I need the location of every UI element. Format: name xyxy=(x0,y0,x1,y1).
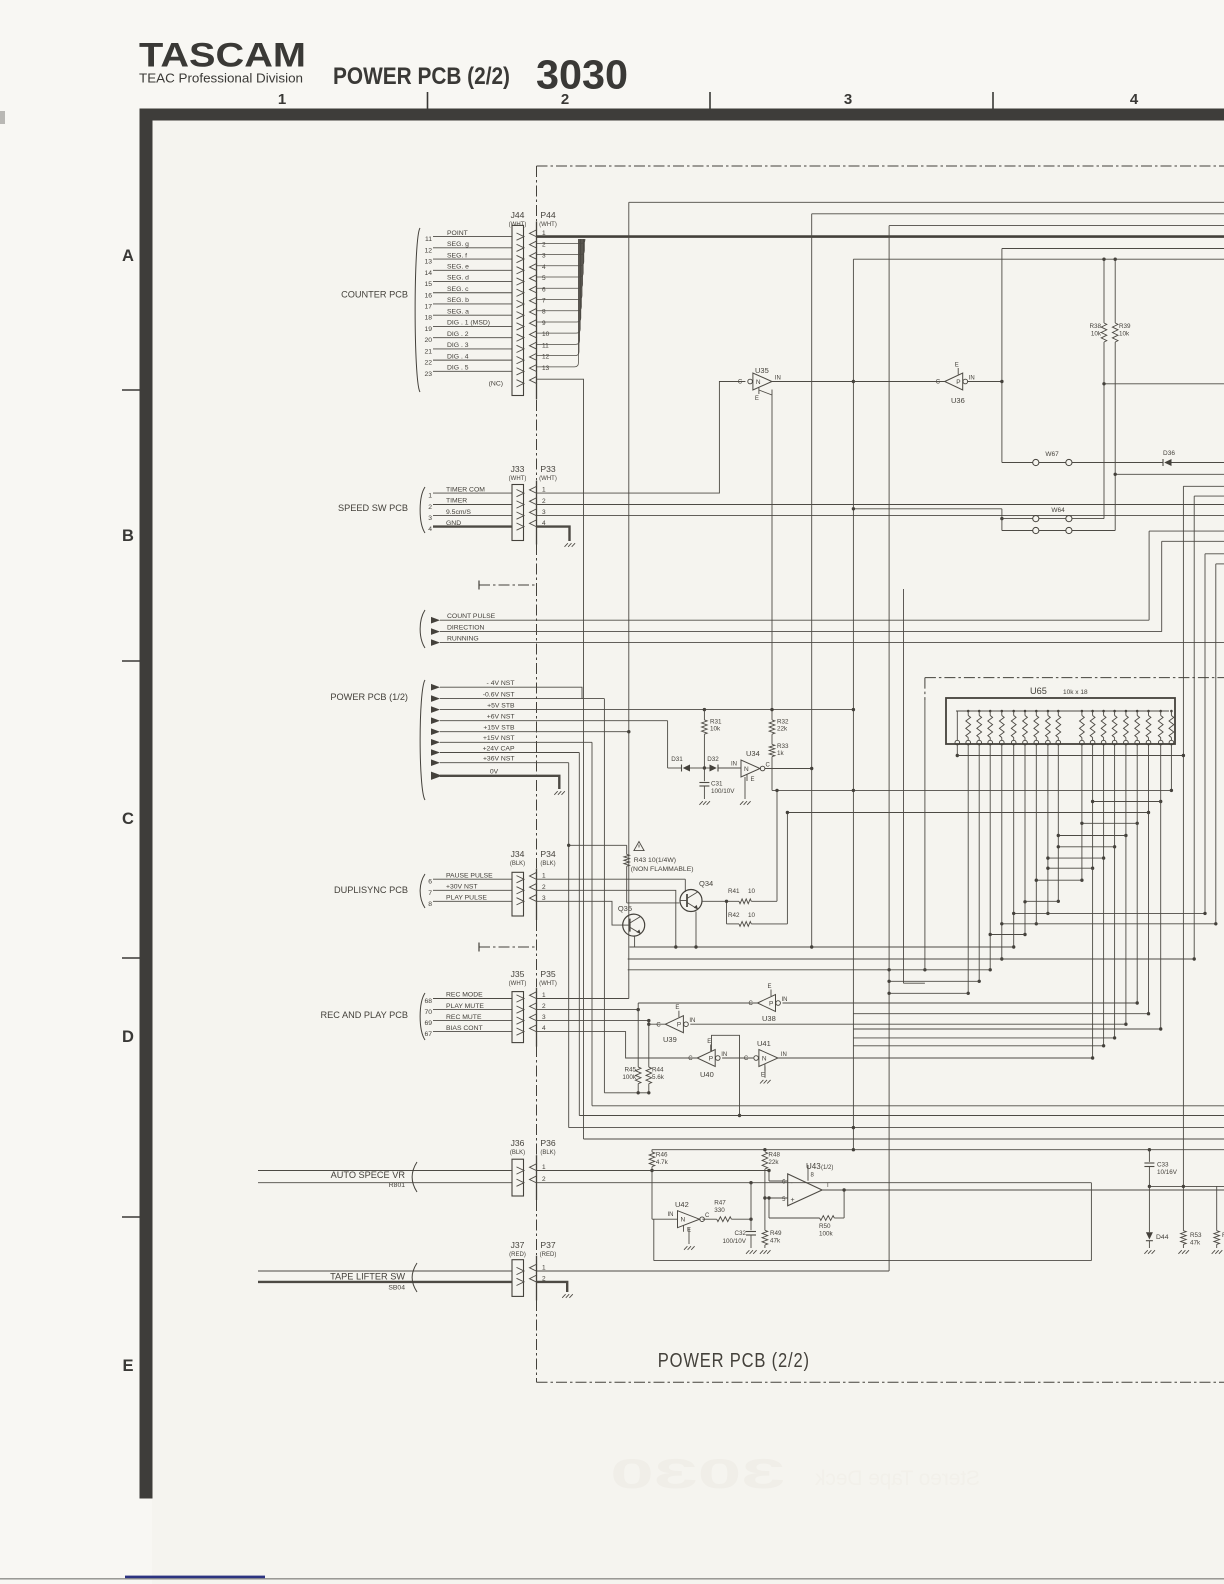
svg-text:+15V NST: +15V NST xyxy=(483,735,515,742)
svg-text:1: 1 xyxy=(542,1265,546,1272)
svg-text:IN: IN xyxy=(721,1052,727,1058)
svg-text:4: 4 xyxy=(428,526,432,533)
svg-text:R44: R44 xyxy=(652,1067,664,1074)
svg-text:P: P xyxy=(769,1000,773,1007)
svg-text:U42: U42 xyxy=(675,1200,689,1209)
svg-text:3030: 3030 xyxy=(536,52,628,98)
svg-text:DIG . 2: DIG . 2 xyxy=(447,331,469,338)
svg-text:2: 2 xyxy=(542,1176,546,1183)
svg-text:3: 3 xyxy=(542,895,546,902)
svg-text:W67: W67 xyxy=(1045,451,1059,458)
svg-text:1: 1 xyxy=(428,493,432,500)
svg-text:U34: U34 xyxy=(746,749,760,758)
svg-text:PLAY MUTE: PLAY MUTE xyxy=(446,1003,484,1010)
svg-text:R53: R53 xyxy=(1190,1232,1202,1239)
svg-text:TAPE LIFTER SW: TAPE LIFTER SW xyxy=(330,1272,405,1282)
svg-text:DUPLISYNC PCB: DUPLISYNC PCB xyxy=(334,885,408,895)
svg-text:SEG. a: SEG. a xyxy=(447,308,469,315)
svg-text:U39: U39 xyxy=(663,1035,677,1044)
svg-text:22k: 22k xyxy=(777,726,788,733)
svg-text:10k x 18: 10k x 18 xyxy=(1063,689,1088,696)
svg-text:P36: P36 xyxy=(540,1138,556,1148)
svg-text:E: E xyxy=(761,1073,765,1079)
svg-text:(WHT): (WHT) xyxy=(509,981,527,987)
svg-text:3: 3 xyxy=(542,253,546,260)
svg-text:20: 20 xyxy=(424,337,432,344)
svg-text:10: 10 xyxy=(542,331,550,338)
svg-text:3: 3 xyxy=(844,91,852,108)
svg-text:N: N xyxy=(681,1217,686,1224)
svg-text:E: E xyxy=(751,777,755,783)
svg-text:R47: R47 xyxy=(714,1200,726,1207)
svg-text:R45: R45 xyxy=(624,1067,636,1074)
svg-text:R43 10(1/4W): R43 10(1/4W) xyxy=(634,857,676,864)
svg-text:SEG. b: SEG. b xyxy=(447,297,469,304)
svg-text:TIMER COM: TIMER COM xyxy=(446,486,485,493)
svg-text:14: 14 xyxy=(424,270,432,277)
svg-text:C: C xyxy=(744,1056,749,1062)
svg-text:IN: IN xyxy=(731,761,737,767)
svg-text:13: 13 xyxy=(424,259,432,266)
svg-text:69: 69 xyxy=(424,1020,432,1027)
svg-text:10k: 10k xyxy=(1091,331,1102,338)
svg-text:70: 70 xyxy=(424,1009,432,1016)
svg-text:(WHT): (WHT) xyxy=(539,222,557,228)
svg-text:2: 2 xyxy=(561,91,569,108)
svg-text:D31: D31 xyxy=(671,756,683,763)
svg-text:+6V NST: +6V NST xyxy=(487,714,515,721)
svg-text:11: 11 xyxy=(542,342,549,349)
svg-text:D36: D36 xyxy=(1163,450,1175,457)
svg-text:BIAS CONT: BIAS CONT xyxy=(446,1025,483,1032)
svg-text:PLAY PULSE: PLAY PULSE xyxy=(446,895,487,902)
svg-text:N: N xyxy=(744,766,749,773)
svg-text:REC AND PLAY PCB: REC AND PLAY PCB xyxy=(321,1010,408,1020)
svg-text:1: 1 xyxy=(542,1164,546,1171)
svg-text:3030: 3030 xyxy=(610,1450,785,1497)
svg-text:Stereo Tape Deck: Stereo Tape Deck xyxy=(815,1467,981,1490)
svg-text:U65: U65 xyxy=(1030,686,1047,696)
svg-text:REC MUTE: REC MUTE xyxy=(446,1014,482,1021)
svg-text:100k: 100k xyxy=(622,1074,637,1081)
svg-text:1: 1 xyxy=(278,91,286,108)
svg-text:P33: P33 xyxy=(540,464,556,474)
svg-text:TIMER: TIMER xyxy=(446,498,467,505)
svg-text:68: 68 xyxy=(424,998,432,1005)
svg-text:(WHT): (WHT) xyxy=(509,476,527,482)
svg-text:IN: IN xyxy=(775,375,781,381)
svg-text:-0.6V NST: -0.6V NST xyxy=(483,691,515,698)
svg-text:10/16V: 10/16V xyxy=(1157,1169,1178,1176)
svg-text:(RED): (RED) xyxy=(509,1252,526,1258)
svg-text:REC MODE: REC MODE xyxy=(446,992,483,999)
svg-text:(BLK): (BLK) xyxy=(510,1150,525,1156)
svg-text:SPEED SW PCB: SPEED SW PCB xyxy=(338,503,408,513)
svg-text:+24V CAP: +24V CAP xyxy=(483,745,515,752)
svg-text:E: E xyxy=(707,1039,711,1045)
svg-text:U40: U40 xyxy=(700,1070,714,1079)
svg-text:5.6k: 5.6k xyxy=(652,1074,665,1081)
svg-text:IN: IN xyxy=(668,1212,674,1218)
svg-text:U38: U38 xyxy=(762,1014,776,1023)
svg-text:C: C xyxy=(749,1001,754,1007)
svg-text:23: 23 xyxy=(424,371,432,378)
svg-text:3: 3 xyxy=(542,1014,546,1021)
svg-text:18: 18 xyxy=(424,315,432,322)
svg-text:R48: R48 xyxy=(768,1152,780,1159)
svg-text:11: 11 xyxy=(425,236,432,243)
svg-text:7: 7 xyxy=(542,297,546,304)
svg-text:16: 16 xyxy=(424,292,432,299)
svg-text:+5V STB: +5V STB xyxy=(487,702,515,709)
svg-text:J34: J34 xyxy=(511,849,525,859)
svg-text:4: 4 xyxy=(542,1025,546,1032)
svg-text:330: 330 xyxy=(714,1207,725,1214)
svg-text:E: E xyxy=(675,1005,679,1011)
svg-text:10: 10 xyxy=(748,912,756,919)
svg-text:RUNNING: RUNNING xyxy=(447,635,479,642)
svg-text:SEG. e: SEG. e xyxy=(447,263,469,270)
svg-text:47k: 47k xyxy=(770,1238,781,1245)
svg-text:(BLK): (BLK) xyxy=(510,861,525,867)
svg-text:67: 67 xyxy=(424,1031,432,1038)
svg-text:2: 2 xyxy=(542,498,546,505)
svg-text:12: 12 xyxy=(424,247,432,254)
svg-text:TEAC Professional Division: TEAC Professional Division xyxy=(139,71,303,86)
svg-text:W64: W64 xyxy=(1051,507,1065,514)
svg-text:POWER PCB (1/2): POWER PCB (1/2) xyxy=(330,692,408,702)
svg-text:A: A xyxy=(122,247,134,265)
svg-text:SEG. g: SEG. g xyxy=(447,241,469,248)
svg-text:19: 19 xyxy=(424,326,432,333)
svg-text:47k: 47k xyxy=(1190,1240,1201,1247)
svg-text:(NC): (NC) xyxy=(489,380,503,387)
svg-text:3: 3 xyxy=(428,515,432,522)
svg-text:R33: R33 xyxy=(777,743,789,750)
svg-text:R50: R50 xyxy=(819,1223,831,1230)
svg-text:DIG . 4: DIG . 4 xyxy=(447,353,469,360)
svg-text:J36: J36 xyxy=(511,1138,525,1148)
svg-text:IN: IN xyxy=(781,1052,787,1058)
svg-text:(BLK): (BLK) xyxy=(540,1150,555,1156)
svg-text:PAUSE PULSE: PAUSE PULSE xyxy=(446,872,493,879)
svg-text:100/10V: 100/10V xyxy=(723,1238,747,1245)
svg-text:12: 12 xyxy=(542,354,550,361)
svg-text:0V: 0V xyxy=(490,768,499,775)
svg-text:J35: J35 xyxy=(511,969,525,979)
svg-text:17: 17 xyxy=(424,303,432,310)
svg-text:+30V NST: +30V NST xyxy=(446,884,478,891)
svg-text:C33: C33 xyxy=(1157,1162,1169,1169)
svg-text:(WHT): (WHT) xyxy=(539,476,557,482)
svg-text:POWER PCB (2/2): POWER PCB (2/2) xyxy=(658,1350,810,1372)
svg-text:22k: 22k xyxy=(768,1159,779,1166)
svg-text:R801: R801 xyxy=(389,1182,405,1189)
svg-text:+: + xyxy=(791,1197,795,1204)
svg-text:P: P xyxy=(956,379,960,386)
svg-text:POINT: POINT xyxy=(447,230,468,237)
svg-text:4: 4 xyxy=(542,264,546,271)
svg-text:SEG. c: SEG. c xyxy=(447,286,469,293)
svg-text:SB04: SB04 xyxy=(388,1285,405,1292)
svg-text:4: 4 xyxy=(1130,91,1139,108)
svg-text:4.7k: 4.7k xyxy=(656,1159,669,1166)
svg-text:DIRECTION: DIRECTION xyxy=(447,624,484,631)
svg-text:C31: C31 xyxy=(711,781,723,788)
svg-text:IN: IN xyxy=(782,997,788,1003)
svg-text:- 4V NST: - 4V NST xyxy=(487,680,515,687)
svg-text:1: 1 xyxy=(542,992,546,999)
svg-text:C: C xyxy=(656,1022,661,1028)
svg-text:C: C xyxy=(738,380,743,386)
svg-text:+36V NST: +36V NST xyxy=(483,756,515,763)
svg-text:21: 21 xyxy=(424,348,432,355)
svg-text:U36: U36 xyxy=(951,396,965,405)
svg-text:2: 2 xyxy=(542,241,546,248)
svg-text:DIG . 1 (MSD): DIG . 1 (MSD) xyxy=(447,320,490,327)
svg-text:2: 2 xyxy=(542,1003,546,1010)
svg-text:D44: D44 xyxy=(1156,1234,1169,1241)
svg-text:J33: J33 xyxy=(511,464,525,474)
svg-text:R41: R41 xyxy=(728,888,740,895)
svg-text:2: 2 xyxy=(542,884,546,891)
svg-text:9.5cm/S: 9.5cm/S xyxy=(446,509,471,516)
svg-text:C: C xyxy=(705,1213,710,1219)
svg-text:IN: IN xyxy=(969,376,975,382)
svg-text:P: P xyxy=(677,1022,681,1029)
svg-text:10k: 10k xyxy=(710,726,721,733)
svg-text:(1/2): (1/2) xyxy=(821,1165,833,1171)
svg-text:DIG . 5: DIG . 5 xyxy=(447,365,469,372)
svg-text:D32: D32 xyxy=(707,756,719,763)
svg-text:1: 1 xyxy=(542,873,546,880)
svg-text:R32: R32 xyxy=(777,719,789,726)
svg-text:P37: P37 xyxy=(540,1240,556,1250)
svg-text:E: E xyxy=(768,984,772,990)
svg-text:15: 15 xyxy=(424,281,432,288)
svg-text:(NON FLAMMABLE): (NON FLAMMABLE) xyxy=(631,866,694,873)
svg-text:+15V STB: +15V STB xyxy=(483,725,515,732)
svg-text:R46: R46 xyxy=(656,1152,668,1159)
svg-text:7: 7 xyxy=(428,890,432,897)
svg-text:P: P xyxy=(709,1055,713,1062)
svg-text:8: 8 xyxy=(428,901,432,908)
svg-text:IN: IN xyxy=(689,1018,695,1024)
svg-text:100k: 100k xyxy=(819,1231,834,1238)
svg-text:E: E xyxy=(122,1357,133,1375)
svg-text:AUTO SPECE VR: AUTO SPECE VR xyxy=(331,1170,406,1180)
svg-text:(WHT): (WHT) xyxy=(509,222,527,228)
svg-text:(BLK): (BLK) xyxy=(540,861,555,867)
svg-text:U35: U35 xyxy=(755,366,769,375)
svg-text:13: 13 xyxy=(542,365,550,372)
svg-text:10k: 10k xyxy=(1119,331,1130,338)
svg-text:N: N xyxy=(756,379,761,386)
svg-text:1: 1 xyxy=(542,487,546,494)
svg-text:D: D xyxy=(122,1028,134,1046)
svg-text:8: 8 xyxy=(542,309,546,316)
svg-text:C: C xyxy=(688,1056,693,1062)
svg-text:6: 6 xyxy=(542,286,546,293)
svg-text:R38: R38 xyxy=(1089,323,1101,330)
svg-text:GND: GND xyxy=(446,520,461,527)
svg-text:R39: R39 xyxy=(1119,323,1131,330)
svg-text:B: B xyxy=(122,527,134,545)
svg-text:C: C xyxy=(766,762,771,768)
svg-text:POWER PCB (2/2): POWER PCB (2/2) xyxy=(333,63,510,90)
svg-text:U41: U41 xyxy=(757,1039,771,1048)
svg-text:C: C xyxy=(122,810,134,828)
svg-text:P35: P35 xyxy=(540,969,556,979)
svg-text:1k: 1k xyxy=(777,750,785,757)
svg-text:(WHT): (WHT) xyxy=(539,981,557,987)
svg-text:COUNT PULSE: COUNT PULSE xyxy=(447,613,496,620)
svg-text:22: 22 xyxy=(424,360,432,367)
svg-text:N: N xyxy=(762,1055,767,1062)
svg-text:DIG . 3: DIG . 3 xyxy=(447,342,469,349)
svg-text:J37: J37 xyxy=(511,1240,525,1250)
svg-text:R42: R42 xyxy=(728,912,740,919)
svg-text:Q34: Q34 xyxy=(699,879,713,888)
svg-text:T: T xyxy=(826,1183,830,1189)
svg-text:3: 3 xyxy=(542,509,546,516)
svg-text:R31: R31 xyxy=(710,719,722,726)
svg-text:P34: P34 xyxy=(540,849,556,859)
svg-text:9: 9 xyxy=(542,320,546,327)
svg-text:P44: P44 xyxy=(540,210,556,220)
svg-text:2: 2 xyxy=(428,504,432,511)
svg-text:COUNTER PCB: COUNTER PCB xyxy=(341,290,408,300)
svg-text:100/10V: 100/10V xyxy=(711,788,735,795)
svg-text:SEG. f: SEG. f xyxy=(447,252,467,259)
svg-text:6: 6 xyxy=(428,879,432,886)
svg-text:J44: J44 xyxy=(511,210,525,220)
svg-text:10: 10 xyxy=(748,888,756,895)
svg-text:E: E xyxy=(955,363,959,369)
svg-text:R49: R49 xyxy=(770,1230,782,1237)
svg-text:Q35: Q35 xyxy=(618,904,632,913)
svg-text:C: C xyxy=(936,380,941,386)
svg-text:C32: C32 xyxy=(734,1230,746,1237)
svg-text:(RED): (RED) xyxy=(540,1252,557,1258)
svg-text:SEG. d: SEG. d xyxy=(447,275,469,282)
svg-text:TASCAM: TASCAM xyxy=(139,37,306,75)
svg-text:5: 5 xyxy=(542,275,546,282)
svg-text:E: E xyxy=(755,396,759,402)
